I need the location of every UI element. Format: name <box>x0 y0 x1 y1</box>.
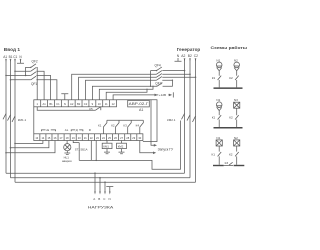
svg-text:B1: B1 <box>9 55 13 59</box>
breaker QF1 pole 2 <box>6 75 51 99</box>
node N busbar above terminal N <box>61 94 68 100</box>
svg-text:Uв: Uв <box>46 128 50 132</box>
breaker QF3 pole 3 <box>86 80 173 100</box>
wire phase C1 vertical <box>14 60 16 182</box>
wire input A1 arrow <box>5 59 7 62</box>
svg-text:12: 12 <box>112 102 115 106</box>
svg-text:К4: К4 <box>136 124 140 128</box>
bus line C <box>15 181 196 183</box>
svg-text:Запуск ГУ: Запуск ГУ <box>158 148 175 152</box>
wire gen A2 vertical <box>184 59 186 173</box>
wire Uв sense t15 to phase B <box>11 141 49 148</box>
scheme1 contact K2 <box>236 71 238 76</box>
svg-text:11: 11 <box>105 102 108 106</box>
wire Запуск ГУ arrow 2 <box>140 141 153 153</box>
scheme3 bar left <box>213 165 224 166</box>
wire terminal 9 line <box>92 80 172 100</box>
contactor coil KM2 <box>121 141 123 144</box>
scheme3 lamp N1 <box>216 140 222 146</box>
svg-text:К2: К2 <box>229 76 233 80</box>
svg-text:A1: A1 <box>42 102 46 106</box>
scheme3 bar right <box>234 165 245 166</box>
svg-text:A1: A1 <box>3 55 7 59</box>
svg-text:B2: B2 <box>188 54 192 58</box>
svg-text:R: R <box>89 128 91 132</box>
svg-text:А1: А1 <box>139 108 143 112</box>
scheme1 lamp N1 <box>216 62 222 68</box>
wire load drop B <box>99 177 101 179</box>
wire gen A2 arrow <box>184 58 186 61</box>
contactor coil KM1 <box>106 141 108 144</box>
wire load drop C <box>104 181 106 183</box>
svg-text:B1: B1 <box>49 102 53 106</box>
wire +12V line from terminal 12 <box>113 95 171 100</box>
svg-text:В: В <box>98 197 100 201</box>
svg-text:B2: B2 <box>77 102 81 106</box>
svg-text:N: N <box>109 197 111 201</box>
wire terminal 11 line <box>106 89 147 100</box>
svg-text:N: N <box>64 102 66 106</box>
relay common rail <box>107 119 143 121</box>
svg-text:Д: Д <box>76 128 78 132</box>
device label box АВР-02-Г <box>128 100 150 107</box>
svg-text:К1: К1 <box>212 116 216 120</box>
wire input N arrow <box>20 59 22 62</box>
svg-text:К1: К1 <box>212 76 216 80</box>
svg-text:К1: К1 <box>212 152 216 156</box>
svg-text:К2: К2 <box>229 116 233 120</box>
svg-text:C1: C1 <box>13 55 17 59</box>
svg-text:КМ1.1: КМ1.1 <box>18 118 27 122</box>
node N busbar left <box>17 60 24 63</box>
breaker QF1 pole 3 <box>11 80 57 100</box>
scheme1 contact K1 <box>218 71 220 76</box>
svg-text:КМ2.1: КМ2.1 <box>167 118 176 122</box>
svg-text:N2: N2 <box>234 136 238 140</box>
wire phase B1 vertical <box>10 60 12 178</box>
bus line B <box>11 177 191 179</box>
svg-text:SБ1А: SБ1А <box>80 147 87 151</box>
wire terminal 10 line <box>99 86 153 100</box>
svg-text:C1: C1 <box>56 102 60 106</box>
svg-text:AL: AL <box>65 128 69 132</box>
bus line A <box>6 172 185 174</box>
wire lower link to gen aux <box>79 121 180 170</box>
wire t22 down <box>90 141 92 161</box>
svg-text:К2: К2 <box>111 124 115 128</box>
scheme2 lamp N1 <box>216 102 222 108</box>
scheme3 contact K1 <box>218 146 220 152</box>
node +12V label <box>158 93 168 97</box>
scheme2 lamp N3 <box>234 102 240 108</box>
svg-text:авария: авария <box>62 159 72 163</box>
scheme1 lamp N2 <box>234 62 240 68</box>
scheme2 contact K2 <box>236 108 238 115</box>
svg-text:N3: N3 <box>234 98 238 102</box>
svg-text:QF4: QF4 <box>155 64 161 68</box>
svg-text:N1: N1 <box>216 136 220 140</box>
svg-text:АВР-02-Г: АВР-02-Г <box>129 102 149 106</box>
scheme2 bus bar <box>214 127 243 129</box>
svg-text:К3: К3 <box>123 124 127 128</box>
scheme1 bus bar <box>214 87 243 89</box>
breaker QF1 pole 1 <box>15 71 44 100</box>
wire phase A1 vertical <box>5 60 7 173</box>
wire QF4 feed vertical <box>150 71 152 87</box>
svg-text:A2: A2 <box>70 102 74 106</box>
device A1 block outline <box>34 100 157 142</box>
svg-text:К3: К3 <box>225 161 229 165</box>
wire input B1 arrow <box>10 59 12 62</box>
wire gen C2 arrow <box>195 58 197 61</box>
svg-text:КМ1: КМ1 <box>103 145 109 149</box>
wire Запуск ГУ arrow 1 <box>151 100 154 146</box>
svg-text:Схемы работы: Схемы работы <box>211 45 248 50</box>
svg-text:QF1: QF1 <box>31 82 37 86</box>
lamp HL1 <box>66 141 68 144</box>
wire gen B2 arrow <box>189 58 191 61</box>
svg-text:К2: К2 <box>229 152 233 156</box>
wire load drop A <box>94 172 96 174</box>
wire Uв sense t14 to phase C <box>15 141 43 144</box>
svg-text:КМ2: КМ2 <box>118 145 124 149</box>
wire Uв sense t16 to phase A <box>6 141 55 153</box>
scheme3 contact K2 <box>236 146 238 152</box>
breaker QF3 pole 2 <box>79 77 196 100</box>
wire t19 jog <box>73 141 79 143</box>
svg-text:10: 10 <box>98 102 101 106</box>
svg-text:C2: C2 <box>194 54 198 58</box>
node gen N busbar <box>175 58 182 61</box>
wire t20 down <box>78 143 80 161</box>
svg-text:QF2: QF2 <box>32 60 38 64</box>
svg-text:Генератор: Генератор <box>177 47 201 52</box>
scheme3 lamp N2 <box>234 140 240 146</box>
wire input C1 arrow <box>14 59 16 62</box>
wire gen B2 vertical <box>189 59 191 178</box>
svg-text:К1: К1 <box>98 124 102 128</box>
breaker QF3 pole 1 <box>72 74 190 100</box>
terminal row bottom <box>34 134 143 141</box>
scheme2 contact K1 <box>218 111 220 116</box>
wire t23 down <box>95 141 97 161</box>
wire load drop N with busbar <box>106 187 113 192</box>
svg-text:C2: C2 <box>84 102 88 106</box>
svg-text:А: А <box>93 197 95 201</box>
terminal row top <box>34 100 117 107</box>
wire gen C2 vertical <box>195 59 197 182</box>
svg-text:A2: A2 <box>181 54 185 58</box>
svg-text:НАГРУЗКА: НАГРУЗКА <box>88 205 114 209</box>
svg-text:Ввод 1: Ввод 1 <box>4 47 21 52</box>
svg-text:+12В: +12В <box>159 93 166 97</box>
